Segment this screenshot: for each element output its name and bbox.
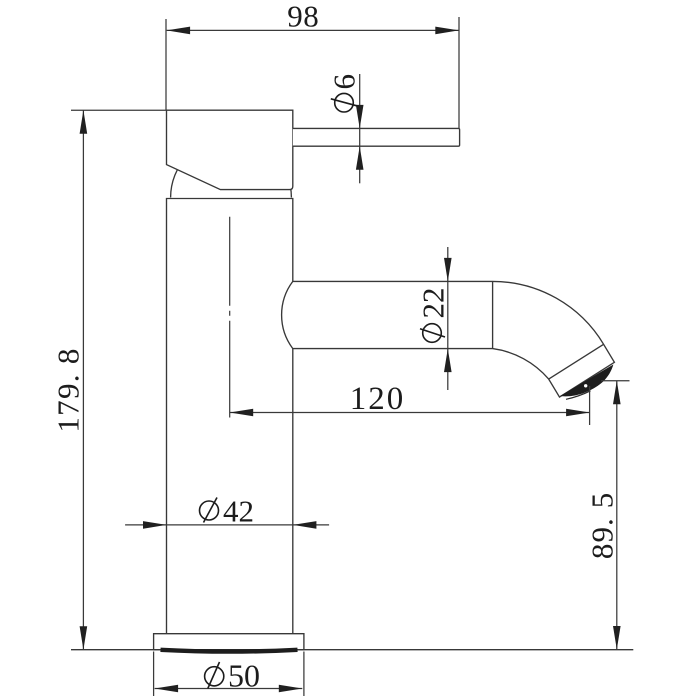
arrow 98 right <box>435 27 459 35</box>
svg-text:6: 6 <box>326 74 361 90</box>
arrow phi42 left-inward <box>143 521 167 529</box>
label 89.5 (rotated) <box>585 492 620 560</box>
arrow 179.8 down <box>80 626 88 650</box>
spout bend tangent line <box>492 281 494 348</box>
svg-text:98: 98 <box>287 0 319 33</box>
dim 120: dimension line <box>230 412 590 414</box>
dim 98: extension line left <box>165 19 167 110</box>
dim 98: dimension line <box>167 29 459 31</box>
dim phi50: extension line right <box>303 652 305 697</box>
label phi22 digits (rotated) <box>416 288 451 319</box>
lever rod <box>293 128 460 146</box>
svg-text:89. 5: 89. 5 <box>585 492 620 560</box>
label phi6 symbol <box>335 93 354 112</box>
dim phi50: extension line left <box>153 652 155 697</box>
label phi6 digit (rotated) <box>326 74 361 90</box>
arrow phi22 down <box>444 258 452 282</box>
svg-text:22: 22 <box>416 288 451 319</box>
base plate <box>154 634 304 650</box>
dim phi22: dimension line <box>447 247 449 390</box>
arrow 120 left <box>230 409 254 417</box>
dim phi50: dimension line <box>155 688 303 690</box>
arrow 89.5 up <box>613 381 621 405</box>
arrow phi6 up <box>356 146 364 170</box>
dim phi6: dimension line <box>359 74 361 183</box>
arrow 98 left <box>167 27 191 35</box>
base gasket dark arc <box>161 650 298 652</box>
label phi22 symbol <box>423 324 442 343</box>
svg-text:179. 8: 179. 8 <box>50 347 85 432</box>
dim 179.8: dimension line <box>82 110 84 650</box>
spout <box>282 281 615 397</box>
arrow phi42 right-inward <box>293 521 317 529</box>
arrow 120 right <box>566 409 590 417</box>
arrow phi50 right <box>279 685 303 693</box>
dim 120: right extension line <box>589 386 591 425</box>
aerator under-line <box>566 391 591 400</box>
body centerline <box>229 217 231 418</box>
aerator highlight dot <box>584 384 587 387</box>
dim 89.5: dimension line <box>616 381 618 650</box>
mounting surface line <box>71 649 633 651</box>
cartridge dome arc <box>171 137 292 197</box>
dim 89.5: top extension line <box>601 380 630 382</box>
arrow 179.8 up <box>80 110 88 134</box>
label phi50 <box>205 658 260 694</box>
svg-text:50: 50 <box>228 658 260 694</box>
svg-text:42: 42 <box>223 494 254 529</box>
svg-text:120: 120 <box>350 381 406 417</box>
dim 98: extension line right <box>458 17 460 128</box>
arrow phi6 down <box>356 105 364 128</box>
arrow phi50 left <box>155 685 179 693</box>
arrow phi22 up <box>444 349 452 373</box>
aerator dark tip <box>560 365 613 397</box>
label 179.8 (rotated) <box>50 347 85 432</box>
arrow 89.5 down <box>613 626 621 650</box>
dim phi42: dimension line <box>125 524 329 526</box>
aerator band line <box>549 344 604 379</box>
handle block <box>167 110 293 189</box>
label phi42 <box>200 494 255 529</box>
faucet body <box>167 199 293 634</box>
dim 179.8: top extension line <box>71 109 167 111</box>
